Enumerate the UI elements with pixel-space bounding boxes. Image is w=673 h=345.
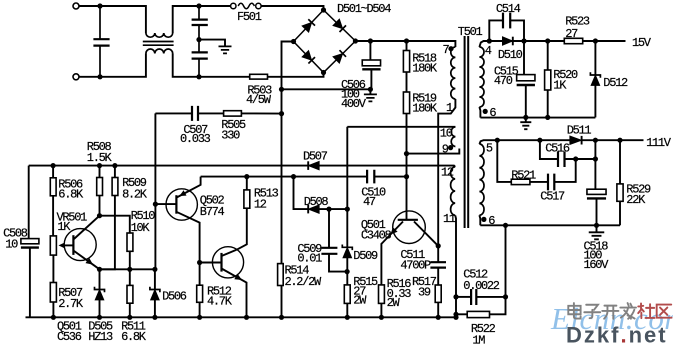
wire left rail down through C508: [28, 166, 30, 239]
watermark hanzi glyph kai: [602, 306, 618, 319]
resistor R506 6.8K: [52, 166, 54, 178]
diode D504 (bridge bottom-right): [333, 54, 343, 64]
node: R508 top junction: [97, 163, 102, 168]
capacitor C517: [548, 174, 554, 191]
svg-text:D508: D508: [304, 195, 329, 209]
svg-text:R521: R521: [511, 168, 536, 182]
wire R513 down to Q503 collector: [237, 208, 247, 250]
watermark hanzi glyph qu: [657, 305, 672, 318]
resistor R505 330: [241, 112, 281, 114]
svg-text:8.2K: 8.2K: [122, 187, 148, 201]
node: top rail / input cap junction: [97, 3, 102, 8]
resistor R503 in bottom AC rail: [268, 73, 324, 77]
svg-text:D506: D506: [162, 289, 187, 303]
node: rail junction R507: [51, 315, 56, 320]
svg-text:1K: 1K: [553, 79, 567, 93]
node: bridge right vertex (DC plus): [353, 38, 358, 43]
wire collector feedback line to R510: [100, 216, 130, 233]
svg-text:0.0022: 0.0022: [463, 279, 500, 293]
svg-text:180K: 180K: [412, 62, 438, 76]
resistor R516 0.33 2W: [379, 285, 385, 304]
resistor R520 1K: [547, 41, 549, 70]
node: R509 top junction: [112, 163, 117, 168]
wire sampling rail (D507 line) from C508 top to transformer pin 12: [29, 166, 456, 167]
node: C512 right junction: [503, 294, 508, 299]
node: rail junction pin 11: [453, 315, 458, 320]
node: Q501 emitter junction: [97, 267, 102, 272]
svg-text:1K: 1K: [57, 220, 71, 234]
Q503 base wire: [200, 262, 222, 264]
node: bridge left vertex (DC minus): [291, 39, 296, 44]
transistor Q503 driver (NPN): [212, 247, 243, 278]
node: rail junction R515: [345, 315, 350, 320]
svg-text:T501: T501: [458, 25, 483, 39]
zener diode D506 (cathode up): [154, 269, 156, 289]
wire DC minus from left vertex down to hot ground: [282, 42, 294, 264]
svg-text:10: 10: [440, 126, 453, 140]
svg-text:Dzkf.net: Dzkf.net: [566, 323, 668, 345]
svg-text:111V: 111V: [646, 136, 672, 150]
node: transformer pin 9 polarity dot: [448, 145, 453, 150]
wire C507 to R505: [198, 112, 224, 114]
svg-text:D507: D507: [303, 149, 328, 163]
wire R518 to R519: [406, 72, 408, 92]
resistor R513 12: [246, 177, 248, 190]
potentiometer VR501 1K: [50, 236, 56, 255]
node: Y-cap top junction: [196, 3, 201, 8]
node: C516 left junction: [537, 138, 542, 143]
ground hot (C506 negative): [369, 89, 371, 94]
resistor R518 180K startup: [406, 41, 408, 51]
svg-text:39: 39: [418, 286, 431, 300]
svg-text:D511: D511: [567, 124, 592, 138]
node: Q502 base junction: [153, 202, 158, 207]
wire transformer pin 1 to Q501 collector column: [438, 99, 455, 246]
svg-text:180K: 180K: [412, 102, 438, 116]
diode D511 rectifier: [570, 136, 582, 145]
svg-text:HZ13: HZ13: [88, 330, 113, 344]
node: R518 top junction: [404, 38, 409, 43]
node: D512 top junction: [593, 38, 598, 43]
Q501 collector lead: [414, 222, 438, 246]
svg-text:0.033: 0.033: [180, 132, 211, 146]
Q503 collector lead: [222, 250, 237, 256]
node: rail junction D505: [97, 315, 102, 320]
wire AC input bottom rail from terminal to choke: [78, 53, 145, 76]
wire R519 down to Q501 base (crosses feedback lines): [406, 114, 408, 220]
transformer T501 secondary winding pin5-pin6: [479, 144, 484, 215]
zener diode D512 (cathode up): [594, 41, 596, 75]
node: C515 return junction: [523, 115, 528, 120]
wire R521 C517 snubber branch: [497, 140, 511, 182]
svg-text:2W: 2W: [387, 296, 401, 310]
wire 15V rail to R523: [524, 40, 564, 42]
node: return rail / Y-cap junction: [503, 223, 508, 228]
capacitor C501 across AC input: [99, 6, 101, 77]
node: R521 branch junction on 111V rail: [495, 138, 500, 143]
node: DC minus / snubber return junction: [279, 111, 284, 116]
node: C512 left junction on pin11 column: [453, 294, 458, 299]
svg-text:2.2/2W: 2.2/2W: [285, 275, 323, 289]
capacitor C502 (upper Y-cap): [198, 6, 200, 77]
transformer T501 base winding pin12-pin11: [451, 167, 456, 215]
wire 15V return rail: [480, 117, 595, 119]
svg-text:C517: C517: [540, 189, 565, 203]
svg-text:1.5K: 1.5K: [87, 151, 113, 165]
node: C514 right / C515 junction: [521, 38, 526, 43]
node: rail junction R514: [279, 315, 284, 320]
capacitor C514 snubber over D510: [489, 20, 503, 41]
zener diode D505 HZ13 (cathode up): [99, 269, 101, 289]
node: Y-cap bottom junction: [196, 74, 201, 79]
capacitor C503 (lower Y-cap): [192, 52, 208, 58]
resistor R509 8.2K: [114, 166, 116, 178]
Q502 collector lead: [176, 212, 199, 263]
svg-text:10K: 10K: [131, 221, 151, 235]
node: rail junction R517: [436, 315, 441, 320]
node: rail junction R511: [127, 315, 132, 320]
resistor R510 10K: [127, 233, 133, 251]
wire pin 5 up to 111V rail: [479, 140, 497, 144]
wire 111V return rail: [480, 224, 620, 226]
svg-text:2.7K: 2.7K: [58, 297, 84, 311]
resistor R507 2.7K: [50, 283, 56, 303]
svg-text:27: 27: [565, 27, 578, 41]
svg-text:D509: D509: [353, 249, 378, 263]
wire 15V rectifier rail pin4 to C515: [489, 40, 524, 42]
capacitor C510 47 on drive line: [367, 170, 374, 184]
node: transformer pin 6 polarity dot (lower): [481, 217, 486, 222]
svg-text:6.8K: 6.8K: [121, 330, 147, 344]
wire D508 branch down and right: [294, 177, 309, 210]
resistor R522 1M: [456, 313, 467, 315]
svg-text:D510: D510: [498, 48, 523, 62]
node: Y-cap midpoint: [196, 37, 201, 42]
node: transformer pin 7 polarity dot: [448, 46, 453, 51]
wire Y-cap midpoint to chassis ground: [199, 40, 225, 46]
wire DC plus rail from bridge to transformer pin 7: [355, 41, 455, 47]
svg-text:470: 470: [494, 74, 513, 88]
svg-text:B774: B774: [200, 205, 225, 219]
resistor R529 22K bleeder: [619, 140, 621, 184]
diode D501 (bridge top-left, anode at minus vertex): [302, 22, 312, 32]
ground hot rail (primary return): [26, 316, 457, 318]
wire pin 4 up to 15V rectifier rail: [479, 41, 489, 47]
wire drive line from Q502 emitter to base column with C510: [201, 176, 368, 178]
node: Q503 base junction: [197, 260, 202, 265]
Q503 emitter lead with arrow: [222, 269, 247, 318]
common-mode choke L501 top winding: [146, 33, 173, 37]
resistor R517 39: [435, 285, 441, 302]
svg-text:10: 10: [5, 238, 18, 252]
wire pin 6 down to 15V return rail: [479, 107, 480, 118]
capacitor C506 bulk electrolytic 100uF 400V: [369, 41, 371, 60]
node: pin9 feedback tap on base column: [404, 151, 409, 156]
svg-text:1M: 1M: [472, 333, 485, 345]
node: C506 negative junction: [368, 87, 373, 92]
node: R529 top junction: [617, 138, 622, 143]
svg-text:C536: C536: [57, 330, 82, 344]
node: post D511 junction: [593, 138, 598, 143]
svg-text:4/5W: 4/5W: [246, 93, 272, 107]
ground secondary 111V (isolated): [596, 225, 598, 231]
capacitor C508 10 (electrolytic): [21, 239, 39, 244]
node: drive line junction on base column: [404, 174, 409, 179]
svg-text:6.8K: 6.8K: [58, 187, 84, 201]
Q502 emitter lead with arrow into bar: [176, 177, 200, 198]
Q501 C536 emitter lead with arrow: [73, 251, 99, 270]
capacitor C511 4700P snubber: [437, 246, 439, 262]
wire pin 6 lower down to 111V return rail: [478, 215, 481, 225]
node: C517 return junction: [573, 156, 578, 161]
common-mode choke L501 bottom winding: [146, 49, 173, 53]
resistor R514 in DC minus leg: [278, 264, 284, 286]
transformer T501 primary winding pin7-pin1: [451, 47, 456, 99]
node: rail junction Q503 emitter: [244, 315, 249, 320]
wire pin 11 down to hot ground rail: [454, 215, 457, 317]
capacitor C507 0.033: [192, 106, 198, 121]
wire VR501 to R507: [52, 255, 54, 282]
watermark hanzi glyph zi: [584, 305, 600, 318]
wire AC input top rail from terminal to line filter: [78, 6, 145, 33]
wire snubber line down to Q502 base node and D506: [154, 113, 156, 269]
resistor R511 6.8K: [129, 269, 131, 285]
node: D506 top junction on error emitter line: [152, 267, 157, 272]
svg-text:12: 12: [254, 198, 267, 212]
ground chassis (Y-cap midpoint): [219, 46, 232, 53]
capacitor C512 0.0022 (Y cap between grounds): [456, 296, 471, 298]
svg-text:47: 47: [363, 195, 376, 209]
wire pin 10 line to D508/D509 node: [347, 126, 455, 128]
node: bottom rail / input cap junction: [97, 74, 102, 79]
watermark hanzi glyph she: [638, 303, 654, 318]
node: rail junction D506: [152, 315, 157, 320]
Q502 base wire: [155, 203, 176, 205]
wire emitter line: [100, 268, 155, 270]
terminal J2 bottom (AC neutral input): [73, 74, 79, 80]
capacitor C515 470 filter: [523, 41, 525, 75]
transformer T501 secondary winding pin4-pin6: [479, 47, 484, 107]
bridge rectifier D501~D504 diamond: [294, 10, 356, 73]
node: C509 return junction: [345, 269, 350, 274]
Q501 C536 collector lead: [73, 216, 99, 240]
node: C506 positive junction: [368, 38, 373, 43]
common-mode choke L501 core: [143, 42, 174, 46]
node: C516 return junction on C518 column: [593, 156, 598, 161]
diode D510 rectifier: [502, 37, 512, 46]
svg-text:4700P: 4700P: [400, 258, 431, 272]
resistor R519 180K startup: [403, 92, 409, 114]
wire D508 to C509/D509 node: [319, 208, 347, 210]
transformer T501 core: [465, 36, 469, 228]
svg-text:D501~D504: D501~D504: [337, 2, 391, 16]
node: rail junction R516: [379, 315, 384, 320]
capacitor C516 snubber over D511: [540, 140, 558, 159]
transistor Q501 C536 error amplifier: [64, 229, 96, 261]
svg-text:12: 12: [441, 165, 454, 179]
svg-text:D512: D512: [603, 76, 628, 90]
node: transformer pin 6 polarity dot (upper): [483, 109, 488, 114]
node: R520 top junction: [545, 38, 550, 43]
transistor Q502 B774 driver (PNP): [166, 189, 197, 220]
transformer T501 feedback winding pin10-pin9: [451, 127, 455, 147]
svg-text:160V: 160V: [584, 258, 610, 272]
wire 111V rail pin5 to D511: [497, 139, 570, 141]
wire snubber line C507 R505: [155, 112, 192, 114]
wire base column to transformer pin 9: [407, 149, 460, 154]
svg-text:22K: 22K: [626, 193, 646, 207]
capacitor C518 100 160V filter: [594, 140, 596, 189]
wiper arrow VR501 to Q501 base: [62, 244, 74, 246]
svg-text:C516: C516: [545, 141, 570, 155]
node: bridge bottom vertex (AC): [321, 70, 326, 75]
node: rail junction R512: [197, 315, 202, 320]
node: return rail / C518 junction: [594, 223, 599, 228]
node: R513 top junction: [244, 174, 249, 179]
watermark hanzi glyph fa: [620, 303, 636, 319]
node: C509 top junction: [326, 207, 331, 212]
diode D507 (cathode left): [308, 161, 319, 170]
svg-text:2W: 2W: [353, 294, 367, 308]
svg-text:4.7K: 4.7K: [207, 295, 233, 309]
svg-text:F501: F501: [237, 10, 262, 24]
node: Q501 collector junction: [97, 213, 102, 218]
zener diode D509 (cathode up): [346, 209, 348, 247]
node: collector snubber junction: [436, 243, 441, 248]
svg-text:400V: 400V: [341, 97, 367, 111]
resistor R521: [511, 179, 530, 184]
Q501 emitter lead with arrow: [381, 222, 403, 285]
svg-text:0.01: 0.01: [297, 251, 322, 265]
diode D502 (bridge top-right, cathode at plus vertex): [333, 19, 343, 29]
wire DC minus rail to C506 negative: [282, 88, 371, 90]
node: R506 top junction: [51, 163, 56, 168]
terminal J1 top (AC line input): [73, 3, 79, 9]
svg-text:15V: 15V: [632, 36, 652, 50]
wire choke bottom output along bottom rail to R503: [173, 53, 250, 76]
node: R520 return junction: [545, 115, 550, 120]
resistor R512 4.7K: [199, 263, 201, 286]
node: R510/R511 junction on emitter line: [127, 267, 132, 272]
capacitor C509 0.01: [328, 209, 330, 247]
resistor R523 27 output: [583, 40, 626, 42]
wire F501 to bridge top vertex: [261, 6, 323, 10]
diode D508 (cathode left): [308, 205, 319, 214]
transistor Q501 C3408 main switch: [393, 211, 426, 244]
wire choke top output to F501: [173, 6, 231, 33]
node: R522 left junction on pin11 column: [453, 312, 458, 317]
svg-text:330: 330: [221, 129, 240, 143]
svg-text:C3408: C3408: [361, 228, 392, 242]
fuse F501: [231, 3, 236, 8]
resistor R515 27 2W: [344, 285, 350, 304]
svg-text:C514: C514: [496, 2, 521, 16]
diode D503 (bridge bottom-left): [302, 51, 312, 61]
node: D508 branch junction: [291, 174, 296, 179]
watermark hanzi glyph dian: [568, 303, 580, 318]
node: bridge top vertex (AC): [321, 7, 326, 12]
wire 111V rail after D511: [582, 139, 644, 141]
svg-text:11: 11: [443, 212, 456, 226]
node: D509 / pin10 junction: [345, 207, 350, 212]
node: DC minus / C506 rail junction: [279, 87, 284, 92]
ground secondary 15V (isolated): [525, 117, 527, 121]
node: pin 4 / C514 left junction: [487, 38, 492, 43]
resistor R508 1.5K body: [99, 166, 101, 178]
